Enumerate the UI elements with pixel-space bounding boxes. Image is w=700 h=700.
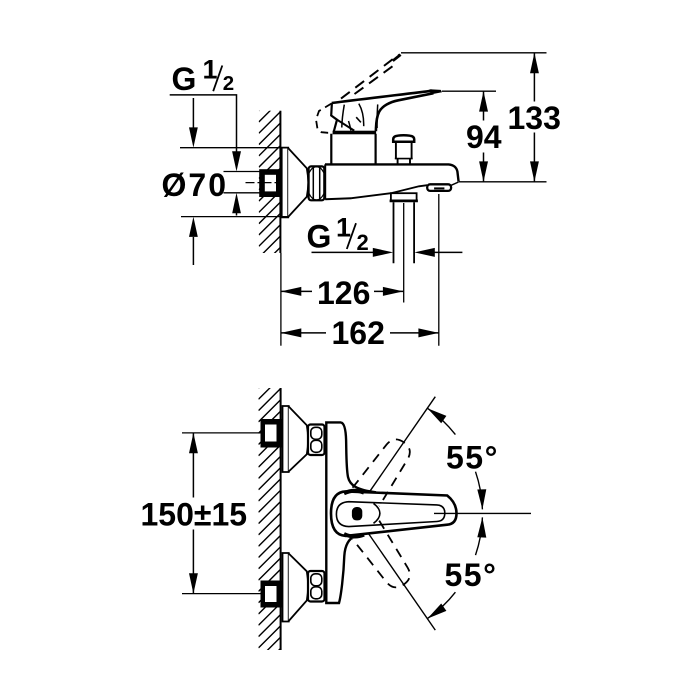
svg-text:1: 1: [336, 212, 351, 242]
body (bottom view) outline: [326, 422, 356, 603]
shower outlet tube G1/2: [394, 202, 415, 263]
wall hatch (top view): [259, 89, 281, 292]
upper escutcheon (bottom view): [283, 406, 309, 472]
indicator dot: [352, 507, 362, 520]
upper wall fitting square: [261, 419, 283, 448]
svg-text:G: G: [307, 219, 332, 255]
diverter knob: [393, 135, 414, 164]
reference line lever tip: [442, 90, 496, 92]
lower 55 angle arc: [427, 517, 497, 618]
reference line raised lever top: [401, 52, 547, 54]
svg-text:2: 2: [357, 230, 369, 255]
svg-text:150±15: 150±15: [141, 496, 248, 532]
fitting extension lines: [224, 172, 260, 193]
svg-text:162: 162: [332, 315, 385, 351]
svg-text:126: 126: [317, 275, 370, 311]
lower hex nut (bottom view): [308, 571, 325, 602]
wall surface line (top view): [279, 111, 281, 253]
dimension Ø70: [162, 98, 288, 265]
lower wall fitting square: [261, 581, 283, 608]
fitting bottom arrow up: [232, 193, 241, 216]
top arrow: [192, 98, 194, 128]
svg-text:2: 2: [223, 72, 234, 95]
svg-text:94: 94: [466, 119, 502, 155]
extension line spout outlet: [438, 194, 440, 346]
hex connection nut (top view): [309, 166, 325, 200]
extension line wall surface (down): [280, 253, 282, 346]
svg-text:G: G: [172, 61, 197, 97]
extension lines: [180, 148, 288, 217]
handle (front view) outer: [331, 491, 457, 536]
lower escutcheon (bottom view): [283, 553, 309, 622]
hub neck arcs: [374, 504, 380, 524]
centerline through escutcheon: [286, 182, 308, 184]
dimension 133: [505, 53, 564, 182]
upper 55 angle arc: [427, 408, 498, 509]
label G1/2 (middle, shower outlet): [307, 212, 463, 257]
faucet body (top view) : top edge and right end: [325, 164, 459, 181]
handle inner contour: [336, 502, 444, 527]
55 degree lines: [368, 397, 435, 494]
svg-text:55°: 55°: [445, 557, 498, 593]
wall surface line (bottom view): [280, 388, 282, 650]
wall hatch (bottom view): [259, 366, 281, 693]
wall connection square fitting (top view): [259, 169, 281, 197]
spout underside diagonal: [352, 185, 428, 198]
horizontal centerline right of handle: [434, 512, 531, 514]
label G1/2 (top left): [170, 55, 237, 152]
body bottom-left edge: [325, 198, 351, 199]
right arrow of G1/2 tube dim: [433, 251, 462, 253]
bottom arrow: [192, 237, 194, 265]
handle front face: [331, 103, 337, 132]
dimension 150±15: [137, 433, 261, 594]
reference line spout axis: [459, 181, 547, 183]
handle sketch curves: [342, 104, 378, 131]
upper hex nut (bottom view): [308, 425, 325, 456]
shower outlet collar: [390, 193, 418, 201]
hub crescents: [344, 491, 364, 494]
dashed handle rotated down 55: [353, 521, 417, 594]
cartridge housing (top view): [331, 134, 375, 164]
extension line tube center: [403, 203, 405, 303]
svg-text:Ø70: Ø70: [162, 167, 228, 203]
dimension 162: [281, 315, 439, 351]
dimension 126: [281, 275, 403, 311]
raised lever dashed position: [316, 55, 401, 133]
spout outlet lip: [427, 182, 458, 191]
dimension 94: [464, 91, 503, 182]
body left edge: [324, 164, 326, 199]
escutcheon (top view): [282, 148, 309, 218]
dash-dot centerline through fitting: [246, 182, 287, 184]
handle base thick band: [333, 131, 377, 135]
svg-text:133: 133: [508, 100, 561, 136]
G1/2 leader arrow down to fitting top: [232, 151, 241, 171]
svg-text:55°: 55°: [446, 440, 499, 476]
svg-text:1: 1: [203, 55, 218, 85]
dashed handle rotated up 55: [353, 433, 417, 506]
lever handle (top view): [332, 91, 432, 131]
